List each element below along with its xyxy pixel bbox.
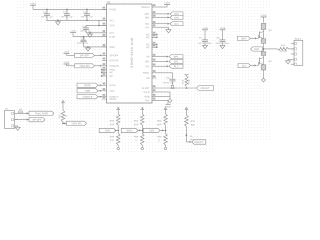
svg-text:QH1: QH1 <box>145 13 151 16</box>
svg-text:GH1: GH1 <box>105 129 111 132</box>
svg-text:SH1: SH1 <box>174 16 179 19</box>
svg-text:R21: R21 <box>59 113 61 118</box>
svg-text:DRVout: DRVout <box>141 6 150 9</box>
svg-text:D-S0: D-S0 <box>109 36 115 39</box>
svg-text:CHG-EN: CHG-EN <box>72 122 82 125</box>
svg-text:VD5: VD5 <box>109 90 114 93</box>
svg-text:WFTB, 1 uF: WFTB, 1 uF <box>61 17 73 19</box>
svg-text:QL2: QL2 <box>242 64 247 67</box>
svg-text:RSB: RSB <box>145 95 150 98</box>
svg-text:nFAULT: nFAULT <box>194 141 203 144</box>
svg-text:C12: C12 <box>63 11 68 14</box>
svg-text:C13: C13 <box>83 11 88 14</box>
svg-text:SP1: SP1 <box>174 56 179 59</box>
svg-text:SHP: SHP <box>134 124 139 126</box>
svg-text:R1B: R1B <box>182 79 184 84</box>
svg-text:R30: R30 <box>157 136 162 138</box>
svg-text:WFTB, 200uF: WFTB, 200uF <box>198 43 212 45</box>
svg-text:VD5: VD5 <box>85 90 90 93</box>
svg-text:SH1x: SH1x <box>127 129 134 132</box>
svg-text:NC: NC <box>146 36 150 39</box>
svg-text:CPL: CPL <box>109 32 114 35</box>
svg-text:GL1: GL1 <box>174 23 179 26</box>
svg-text:REG1: REG1 <box>143 72 150 75</box>
svg-text:WFTB, 1uF: WFTB, 1uF <box>163 83 175 85</box>
svg-text:DATA: DATA <box>84 84 91 87</box>
svg-text:P1: P1 <box>5 107 9 111</box>
svg-text:QH2: QH2 <box>241 37 247 40</box>
svg-text:COM1-E: COM1-E <box>83 96 93 99</box>
svg-text:SHP: SHP <box>157 124 162 126</box>
svg-text:DATA: DATA <box>109 84 115 87</box>
svg-text:SL1: SL1 <box>145 26 150 29</box>
svg-text:SP-OFF: SP-OFF <box>32 119 42 122</box>
svg-text:SH2: SH2 <box>174 60 179 63</box>
svg-text:SP-OFF: SP-OFF <box>109 54 118 57</box>
svg-text:VC1: VC1 <box>109 19 114 22</box>
svg-text:R28: R28 <box>134 136 139 138</box>
svg-text:SP: SP <box>146 55 150 58</box>
svg-text:nFAULT: nFAULT <box>201 87 210 90</box>
svg-text:MODE: MODE <box>109 98 117 101</box>
svg-text:R27: R27 <box>134 121 139 123</box>
svg-text:GND: GND <box>109 46 115 49</box>
svg-text:R29: R29 <box>157 121 162 123</box>
svg-text:GL1: GL1 <box>145 23 150 26</box>
svg-text:SHP: SHP <box>110 124 115 126</box>
svg-text:SL2: SL2 <box>174 65 179 68</box>
svg-text:R25: R25 <box>110 121 115 123</box>
svg-text:WFTB, 1 uF: WFTB, 1 uF <box>41 17 53 19</box>
svg-text:CHG-EN: CHG-EN <box>109 65 119 68</box>
svg-text:NC: NC <box>109 71 113 74</box>
svg-text:SH1: SH1 <box>145 16 150 19</box>
svg-text:NC: NC <box>146 46 150 49</box>
svg-text:U1: U1 <box>107 0 111 4</box>
svg-text:CHG-EN: CHG-EN <box>80 65 90 68</box>
svg-text:C14: C14 <box>82 25 87 28</box>
svg-text:NC: NC <box>109 75 113 78</box>
svg-text:R32: R32 <box>191 121 196 123</box>
svg-text:R26: R26 <box>110 136 115 138</box>
svg-text:TholL-500R: TholL-500R <box>35 112 48 115</box>
svg-text:BPD-S300-QRGC: BPD-S300-QRGC <box>130 38 134 69</box>
svg-text:SL-567: SL-567 <box>280 51 288 53</box>
svg-text:R14: R14 <box>281 44 286 47</box>
svg-text:5.6K: 5.6K <box>189 79 191 84</box>
svg-text:VCP: VCP <box>109 24 114 27</box>
svg-text:CB: CB <box>146 77 150 80</box>
svg-text:Pn5: Pn5 <box>145 99 150 102</box>
svg-text:WFTB, 200uF: WFTB, 200uF <box>216 43 230 45</box>
svg-text:CM1: CM1 <box>149 129 155 132</box>
svg-text:WFTB, 1 uF: WFTB, 1 uF <box>81 17 93 19</box>
svg-text:WFTB, 1uF: WFTB, 1uF <box>77 43 89 45</box>
svg-text:ALERT: ALERT <box>142 87 150 90</box>
svg-text:PG-B: PG-B <box>144 91 150 94</box>
svg-text:PVDD: PVDD <box>109 8 116 11</box>
svg-text:HS-EXP: HS-EXP <box>109 59 118 62</box>
svg-text:SL2: SL2 <box>145 65 150 68</box>
svg-text:Batt-p: Batt-p <box>295 38 302 41</box>
svg-text:SH2: SH2 <box>254 48 259 51</box>
svg-text:SP-OFF: SP-OFF <box>80 54 90 57</box>
svg-text:SH2: SH2 <box>145 60 150 63</box>
svg-text:C11: C11 <box>43 11 48 14</box>
